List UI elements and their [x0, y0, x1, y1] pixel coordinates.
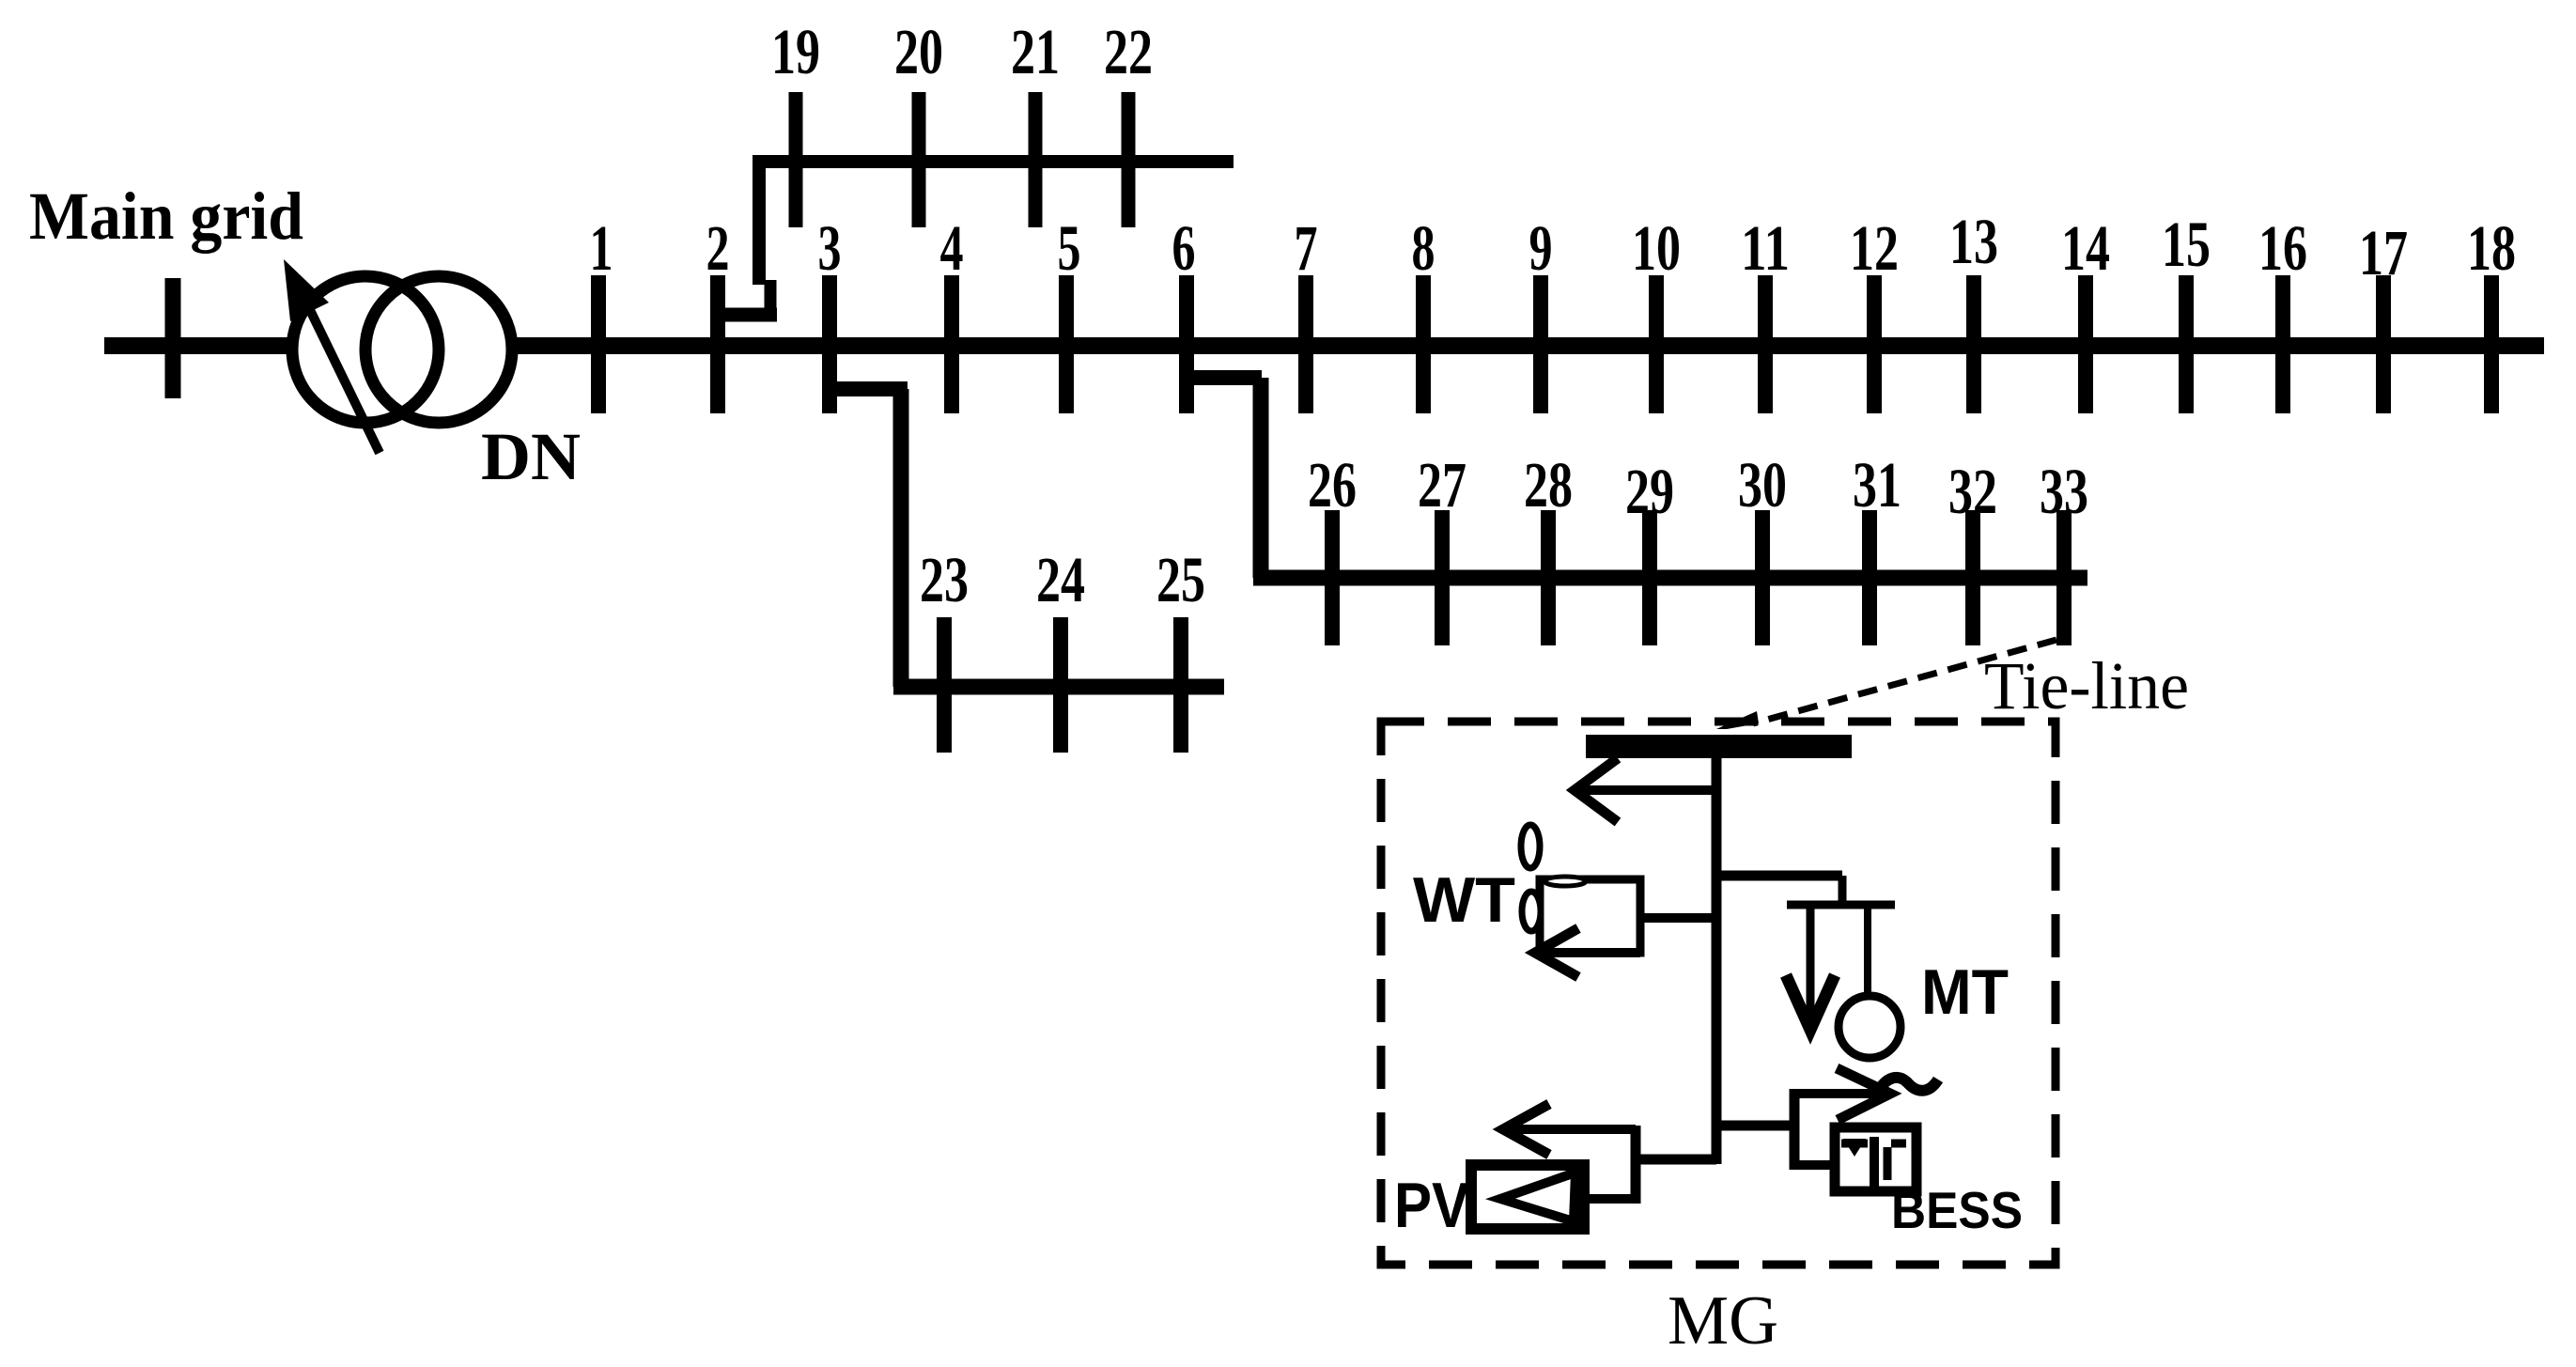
bus 2 [710, 275, 725, 413]
bus 28 [1541, 510, 1556, 645]
svg-text:26: 26 [1308, 449, 1357, 520]
wire MT branch [1716, 871, 1842, 881]
bus 12 [1867, 275, 1882, 413]
svg-text:9: 9 [1529, 212, 1553, 284]
svg-text:32: 32 [1948, 456, 1997, 527]
svg-text:27: 27 [1418, 449, 1466, 520]
wire BESS arrow tail [1794, 1089, 1890, 1098]
svg-text:Tie-line: Tie-line [1984, 648, 2189, 723]
wire BESS to battery [1794, 1160, 1839, 1170]
wire MT load arrow stem [1807, 905, 1815, 1019]
bus 29 [1642, 510, 1657, 645]
bus 7 [1298, 275, 1313, 413]
svg-text:33: 33 [2040, 456, 2088, 527]
wind turbine WT blade upper [1521, 825, 1540, 868]
bus 10 [1649, 275, 1664, 413]
wire WT arrow tail [1535, 948, 1640, 957]
battery BESS right stub [1891, 1140, 1906, 1148]
wire BESS connector vertical [1790, 1089, 1800, 1170]
wind turbine WT blade lower [1522, 892, 1541, 931]
svg-text:29: 29 [1625, 456, 1674, 527]
svg-text:22: 22 [1104, 16, 1153, 87]
svg-text:21: 21 [1011, 16, 1060, 87]
node main-grid bus tick [165, 278, 181, 398]
wire riser lower segment [765, 280, 777, 321]
bus 3 [822, 275, 837, 413]
wire MT branch drop [1839, 876, 1847, 905]
bus 22 [1122, 92, 1136, 227]
tie-line arrowhead at MG end [1716, 711, 1759, 729]
bus 20 [912, 92, 926, 227]
battery BESS short plate [1884, 1147, 1892, 1180]
wire feeder 19-22 [753, 155, 1234, 168]
wind turbine WT blade right [1544, 877, 1586, 886]
battery BESS box [1835, 1127, 1916, 1191]
svg-text:MG: MG [1668, 1282, 1778, 1359]
wire riser upper segment [753, 155, 766, 285]
bus 18 [2484, 275, 2499, 413]
wire MT generator stem [1864, 905, 1871, 996]
BESS arrowhead [1837, 1068, 1890, 1120]
wire PV connector vertical [1631, 1126, 1641, 1204]
svg-text:4: 4 [940, 212, 964, 284]
svg-text:MT: MT [1921, 956, 2009, 1028]
bus 14 [2078, 275, 2093, 413]
svg-text:17: 17 [2359, 217, 2408, 288]
svg-text:18: 18 [2467, 212, 2516, 284]
transformer T1 regulation arrowhead [284, 259, 329, 321]
wire MG trunk [1712, 756, 1722, 1164]
svg-text:11: 11 [1741, 212, 1790, 284]
bus 1 [591, 275, 606, 413]
wire bus6 jog to feeder 26-33 [1187, 370, 1262, 385]
wire feeder 23-25 [893, 679, 1224, 695]
bus 31 [1862, 510, 1877, 645]
node MG bus bar [1586, 735, 1852, 758]
svg-text:20: 20 [894, 16, 943, 87]
svg-text:10: 10 [1632, 212, 1681, 284]
bus 11 [1758, 275, 1773, 413]
MT load arrowhead [1786, 975, 1835, 1030]
PV panel triangle [1500, 1173, 1575, 1221]
bus 27 [1435, 510, 1450, 645]
bus 16 [2275, 275, 2290, 413]
svg-text:16: 16 [2258, 212, 2307, 284]
transformer T1 OLTC circle B [365, 276, 512, 423]
svg-text:WT: WT [1413, 864, 1515, 936]
bus 24 [1053, 617, 1068, 753]
svg-text:14: 14 [2061, 212, 2110, 284]
bus 13 [1966, 275, 1981, 413]
svg-text:6: 6 [1172, 212, 1196, 284]
wire main feeder right segment [517, 337, 2544, 354]
bus 15 [2179, 275, 2194, 413]
wire PV branch [1636, 1155, 1716, 1165]
svg-text:3: 3 [818, 212, 842, 284]
wire drop to feeder 23-25 [893, 389, 909, 687]
svg-text:12: 12 [1850, 212, 1899, 284]
svg-text:24: 24 [1036, 544, 1085, 615]
wire drop to feeder 26-33 [1253, 378, 1269, 578]
BESS AC tilde [1877, 1078, 1938, 1095]
svg-text:1: 1 [590, 212, 613, 284]
wire BESS branch [1716, 1121, 1794, 1131]
bus 23 [937, 617, 952, 753]
battery BESS left stub [1841, 1140, 1868, 1148]
PV arrowhead [1503, 1104, 1549, 1155]
bus 9 [1533, 275, 1548, 413]
bus 32 [1965, 510, 1980, 645]
bus 25 [1173, 617, 1188, 753]
node MT T-bar [1787, 901, 1895, 909]
svg-text:DN: DN [481, 419, 581, 494]
transformer T1 OLTC circle A [292, 276, 439, 423]
generator MT circle [1839, 996, 1901, 1058]
converter box WT [1540, 879, 1640, 953]
svg-text:23: 23 [920, 544, 969, 615]
load arrowhead (top-left) [1575, 758, 1618, 822]
wire tie-line dashed [1753, 640, 2056, 723]
wire main feeder left segment [104, 337, 289, 354]
bus 30 [1755, 510, 1770, 645]
svg-text:7: 7 [1295, 212, 1318, 284]
battery BESS long plate [1870, 1137, 1879, 1187]
bus 6 [1179, 275, 1194, 413]
svg-text:PV: PV [1394, 1170, 1469, 1241]
svg-text:15: 15 [2162, 209, 2211, 280]
svg-text:31: 31 [1853, 449, 1901, 520]
svg-text:25: 25 [1156, 544, 1205, 615]
svg-text:28: 28 [1524, 449, 1573, 520]
bus 8 [1416, 275, 1431, 413]
wire PV to panel [1584, 1194, 1636, 1204]
bus 17 [2376, 275, 2391, 413]
svg-text:19: 19 [771, 16, 820, 87]
svg-text:Main grid: Main grid [29, 179, 303, 254]
boundary MG dashed box [1381, 722, 2056, 1265]
wire load arrow tail (top-left) [1575, 785, 1712, 795]
bus 26 [1325, 510, 1340, 645]
bus 21 [1029, 92, 1043, 227]
wire feeder 26-33 [1253, 570, 2087, 586]
wire PV arrow tail [1503, 1125, 1636, 1134]
bus 4 [944, 275, 959, 413]
wire bus3 jog to feeder 23-25 [830, 381, 908, 396]
svg-text:BESS: BESS [1891, 1181, 2023, 1239]
bus 33 [2056, 510, 2072, 645]
battery BESS polarity triangle [1843, 1139, 1866, 1157]
svg-text:5: 5 [1058, 212, 1081, 284]
bus 5 [1059, 275, 1074, 413]
svg-text:13: 13 [1949, 206, 1998, 277]
svg-text:30: 30 [1738, 449, 1787, 520]
svg-text:8: 8 [1412, 212, 1435, 284]
wire bus2 jog to feeder 19-22 [710, 308, 777, 322]
wire WT connector [1640, 913, 1712, 923]
WT arrowhead [1535, 928, 1578, 977]
bus 19 [789, 92, 803, 227]
PV panel box [1471, 1165, 1584, 1229]
transformer T1 regulation arrow shaft [310, 310, 380, 453]
svg-text:2: 2 [706, 212, 730, 284]
